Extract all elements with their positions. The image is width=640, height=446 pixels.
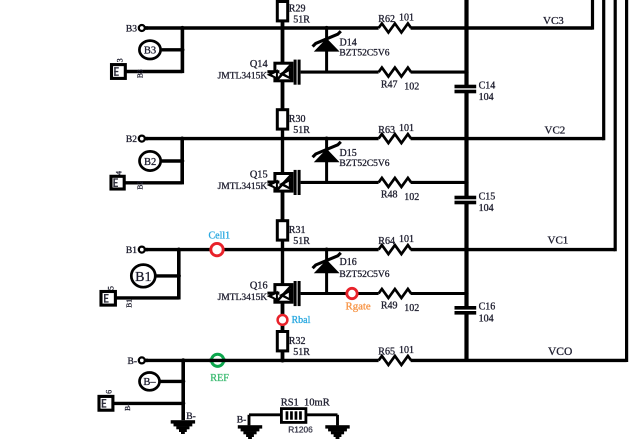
svg-text:JMTL3415K: JMTL3415K <box>218 72 268 82</box>
svg-text:R32: R32 <box>289 336 306 347</box>
svg-text:Q15: Q15 <box>250 170 268 181</box>
svg-text:B2: B2 <box>126 135 137 145</box>
svg-text:JMTL3415K: JMTL3415K <box>218 293 268 303</box>
svg-text:VC1: VC1 <box>548 235 569 247</box>
svg-text:101: 101 <box>399 234 414 245</box>
svg-text:BZT52C5V6: BZT52C5V6 <box>339 49 389 59</box>
svg-text:R47: R47 <box>381 79 398 90</box>
svg-text:B–: B– <box>143 377 156 388</box>
svg-text:R49: R49 <box>381 301 398 312</box>
svg-text:B3: B3 <box>135 69 144 78</box>
svg-text:51R: 51R <box>293 125 310 136</box>
svg-text:D16: D16 <box>340 257 357 268</box>
svg-text:B-: B- <box>128 357 138 367</box>
svg-text:R48: R48 <box>381 190 398 201</box>
svg-text:Q14: Q14 <box>250 59 268 70</box>
svg-text:R1206: R1206 <box>288 424 313 434</box>
svg-text:B2: B2 <box>136 181 145 190</box>
svg-text:C14: C14 <box>479 80 496 91</box>
svg-text:51R: 51R <box>293 14 310 25</box>
svg-text:104: 104 <box>479 314 494 325</box>
svg-text:B2: B2 <box>144 157 156 168</box>
svg-text:B1: B1 <box>126 246 137 256</box>
svg-text:4: 4 <box>115 171 124 175</box>
svg-text:101: 101 <box>399 13 414 24</box>
svg-text:104: 104 <box>479 92 494 103</box>
svg-text:B-: B- <box>123 403 132 411</box>
svg-text:D15: D15 <box>340 148 357 159</box>
svg-text:B1: B1 <box>135 270 151 285</box>
svg-text:RS1 10mR: RS1 10mR <box>281 397 330 408</box>
svg-text:101: 101 <box>399 123 414 134</box>
svg-text:Rgate: Rgate <box>346 300 371 312</box>
svg-text:BZT52C5V6: BZT52C5V6 <box>339 159 389 169</box>
svg-text:C15: C15 <box>479 191 496 202</box>
svg-text:VC2: VC2 <box>545 125 566 137</box>
svg-text:51R: 51R <box>293 236 310 247</box>
svg-text:D14: D14 <box>340 38 357 49</box>
svg-text:R31: R31 <box>289 225 306 236</box>
svg-text:R63: R63 <box>378 125 395 136</box>
svg-text:B3: B3 <box>126 25 137 35</box>
svg-text:5: 5 <box>106 286 115 290</box>
svg-text:R64: R64 <box>378 236 395 247</box>
svg-text:Cell1: Cell1 <box>209 230 231 241</box>
svg-text:104: 104 <box>479 203 494 214</box>
svg-text:6: 6 <box>105 390 114 394</box>
svg-text:REF: REF <box>210 373 229 384</box>
svg-text:102: 102 <box>404 192 419 203</box>
svg-text:R65: R65 <box>378 347 395 358</box>
svg-text:R30: R30 <box>289 114 306 125</box>
svg-text:BZT52C5V6: BZT52C5V6 <box>339 270 389 280</box>
svg-text:B-: B- <box>237 416 247 426</box>
svg-text:R62: R62 <box>378 14 395 25</box>
svg-text:101: 101 <box>399 345 414 356</box>
svg-text:B-: B- <box>186 412 196 422</box>
svg-text:R29: R29 <box>289 4 306 15</box>
svg-text:C16: C16 <box>479 302 496 313</box>
svg-text:VCO: VCO <box>548 346 572 358</box>
svg-text:JMTL3415K: JMTL3415K <box>218 182 268 192</box>
svg-text:Rbal: Rbal <box>292 315 311 326</box>
svg-text:102: 102 <box>404 303 419 314</box>
svg-text:51R: 51R <box>293 347 310 358</box>
svg-text:102: 102 <box>404 82 419 93</box>
svg-text:B1: B1 <box>125 299 134 308</box>
svg-text:Q16: Q16 <box>250 281 268 292</box>
svg-text:3: 3 <box>116 58 125 62</box>
svg-text:B3: B3 <box>144 46 156 57</box>
svg-text:VC3: VC3 <box>543 15 564 27</box>
